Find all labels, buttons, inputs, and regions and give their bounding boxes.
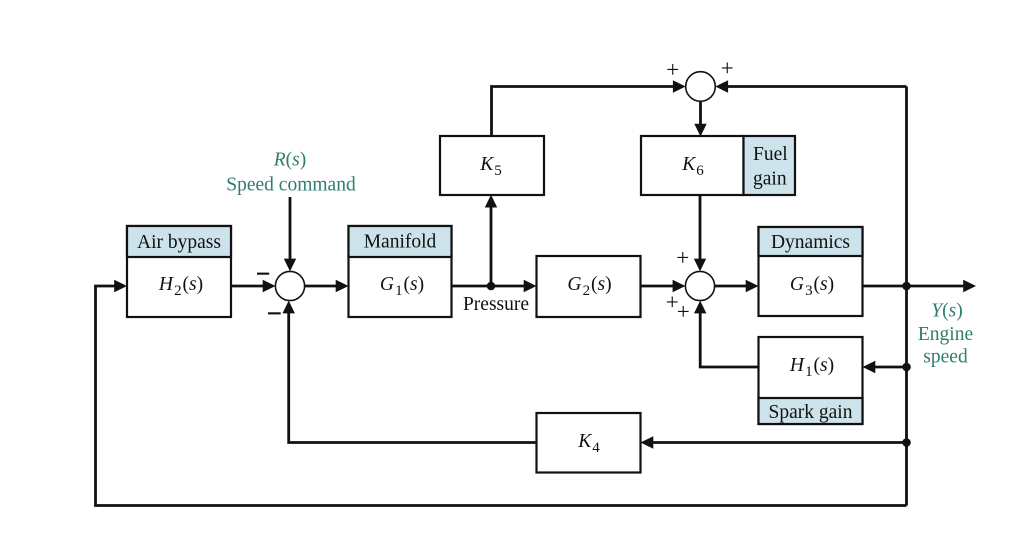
node output junction dot on right bus [902,282,911,291]
block G3 Dynamics [759,227,863,316]
svg-text:+: + [676,245,689,270]
wire: right bus into K4 [641,436,907,448]
wire: right vertical bus [905,87,908,506]
svg-text:Y(s): Y(s) [931,301,962,322]
wire: H2 output to summing junction S1 [231,280,276,292]
svg-text:Dynamics: Dynamics [771,232,850,253]
svg-text:+: + [666,57,679,82]
summing junction S3 (top) [686,72,716,102]
summing junction S1 [275,271,304,300]
svg-text:+: + [721,55,734,80]
wire: G1 output to G2 [452,280,537,292]
node H1 input junction dot [902,363,911,372]
sign minus for K4 input at S1 [268,312,281,314]
wire: S1 output to G1 [305,280,349,292]
summing junction S2 [685,271,714,300]
block G1 Manifold [349,226,452,317]
block K6 [641,136,744,195]
block K4 [537,413,641,473]
svg-text:+: + [677,299,690,324]
svg-text:Pressure: Pressure [463,294,529,315]
wire: bottom outer feedback from right vertical to H2 input [96,280,907,506]
wire: right bus into S3 from the right [715,80,906,92]
wire: Pressure node up to K5 [485,195,497,286]
wire: G2 output to S2 [641,280,686,292]
svg-text:Engine: Engine [918,324,973,345]
wire: right bus into H1 [863,361,907,373]
wire: S3 down into K6 [694,101,706,136]
svg-text:gain: gain [753,169,787,190]
wire: H1 output left and up into S2 [694,301,759,367]
svg-text:Air bypass: Air bypass [137,232,221,253]
wire: S2 output to G3 [715,280,759,292]
sign minus for H2 input at S1 [257,273,269,275]
block K5 [440,136,544,195]
wire: G3 output to Y(s) [863,280,977,292]
wire: R(s) input down into S1 [284,197,296,271]
wire: K5 output up and right into S3 [492,80,686,136]
node K4 input junction dot [902,438,911,447]
block G2 [537,256,641,317]
node Pressure junction dot [487,282,496,291]
svg-text:R(s): R(s) [273,150,307,171]
svg-text:Spark gain: Spark gain [769,402,853,423]
label Fuel gain (shaded tag on K6) [744,136,796,195]
svg-text:Speed command: Speed command [226,175,356,196]
block H1 Spark gain [759,337,863,424]
wire: K6 output down into S2 [694,195,706,272]
block H2 Air bypass [127,226,231,317]
svg-text:Manifold: Manifold [364,232,437,253]
svg-text:Fuel: Fuel [753,144,788,165]
wire: K4 output left and up into S1 [283,301,537,443]
svg-text:speed: speed [923,347,968,368]
